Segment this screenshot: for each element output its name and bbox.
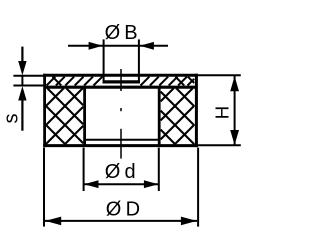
left wall cross hatch [46,88,83,144]
dimension ØB right arrowhead [140,42,154,50]
body outline top line [43,74,198,77]
plate hole left edge / ØB extension line [103,39,105,83]
dimension H bottom extension line [198,144,241,146]
dimension s middle segment [21,76,23,86]
dimension ØB left arrowhead [89,42,103,50]
plate hatch corner cross strokes [53,77,195,86]
dimension H bottom arrowhead [230,130,239,145]
svg-text:B: B [124,22,137,44]
right wall cross hatch [161,88,195,144]
bore bottom line [85,139,160,141]
dimension Ød left arrowhead [84,180,99,188]
dimension ØD line [45,220,197,222]
svg-text:D: D [126,198,140,220]
dimension Ød left extension line [83,148,85,191]
svg-text:d: d [125,161,136,183]
dimension H top extension line [198,74,241,76]
plate bottom line [44,86,196,89]
dimension ØD left extension line [43,148,45,227]
body outline left line [43,74,46,147]
dimension ØD right arrowhead [181,217,197,226]
dimension ØD right extension line [197,148,199,227]
dimension ØB line [68,45,168,47]
dimension s lower arrow shaft [21,101,23,131]
svg-text:H: H [212,106,233,119]
centerline [120,69,122,159]
dimension Ød right extension line [158,148,160,191]
dimension s lower arrowhead [18,86,26,100]
svg-text:s: s [1,114,23,124]
dimension s lower extension line [13,85,43,87]
svg-text:Ø: Ø [105,22,121,44]
dimension s upper extension line [13,75,43,77]
dimension H top arrowhead [230,76,239,91]
rubber top line seen through plate hole [103,80,140,83]
bore left edge [83,87,86,146]
bore right edge [158,87,161,146]
dimension ØD left arrowhead [45,217,61,226]
body outline right line [195,74,198,147]
body outline bottom line [43,144,198,147]
plate hatch (single diagonal) [47,77,195,86]
svg-text:Ø: Ø [106,198,122,220]
dimension s upper arrow shaft [21,47,23,62]
dimension H line [234,76,236,145]
dimension Ød line [84,183,159,185]
dimension s upper arrowhead [18,61,26,75]
dimension Ød right arrowhead [144,180,159,188]
svg-text:Ø: Ø [105,161,121,183]
plate hole right edge / ØB extension line [138,39,140,83]
